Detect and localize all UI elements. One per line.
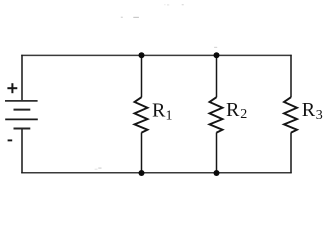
battery polarity label plus: [7, 83, 17, 93]
label R1: [152, 99, 173, 123]
wire battery positive lead: [21, 55, 23, 101]
svg-text:R: R: [302, 99, 316, 121]
wire R2 bottom lead: [216, 133, 218, 174]
resistor R1: [135, 97, 148, 132]
junction top R2 node: [214, 52, 220, 58]
wire R3 top lead: [290, 55, 292, 98]
junction bottom R1 node: [139, 170, 145, 176]
svg-text:1: 1: [166, 109, 173, 124]
battery B1 negative plate (short): [14, 109, 31, 111]
battery B1 second negative plate (short): [14, 128, 31, 130]
wire R1 bottom lead: [141, 133, 143, 174]
wire bottom rail: [21, 172, 292, 174]
wire R3 bottom lead: [290, 133, 292, 174]
battery B1 second positive plate (long): [5, 118, 38, 120]
wire R2 top lead: [216, 55, 218, 98]
svg-text:R: R: [152, 99, 166, 121]
battery B1 positive plate (long): [5, 100, 38, 102]
battery polarity label minus: [8, 139, 13, 141]
resistor R2: [210, 97, 223, 132]
svg-text:R: R: [226, 99, 240, 121]
label R2: [226, 99, 247, 122]
wire top rail: [21, 54, 292, 56]
wire R1 top lead: [141, 55, 143, 98]
junction top R1 node: [139, 52, 145, 58]
svg-text:2: 2: [240, 107, 247, 122]
resistor R3: [284, 97, 297, 132]
label R3: [302, 99, 323, 123]
svg-text:3: 3: [316, 108, 323, 123]
wire battery negative lead: [21, 129, 23, 174]
junction bottom R2 node: [214, 170, 220, 176]
